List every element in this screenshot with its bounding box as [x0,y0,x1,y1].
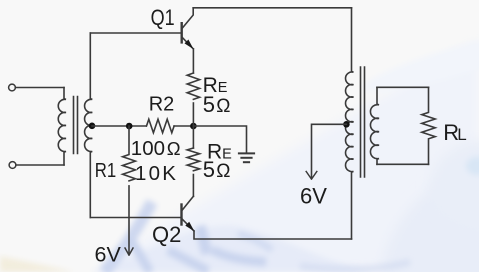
arrow 6V left [125,248,133,255]
transformer T1 core [74,97,78,154]
wire secondary to RL bottom [377,163,429,165]
wire RE2 to Q2 collector [192,175,194,197]
svg-text:6V: 6V [300,184,327,209]
svg-text:Q2: Q2 [152,222,181,247]
wire center tap to node A [92,125,146,127]
transformer T1 primary winding [58,88,66,166]
svg-text:Ω: Ω [167,138,181,159]
node B junction dot [190,123,197,130]
transformer T2 primary winding [346,8,354,239]
node T2 center tap [343,121,350,128]
svg-text:10K: 10K [135,162,178,185]
transistor Q1 [182,8,194,49]
wire secondary top to Q1 base [90,32,181,34]
transformer T2 core [361,67,365,177]
wire node B to RE2 [192,126,194,148]
resistor RL [422,87,435,164]
resistor RE2 [187,148,199,171]
svg-text:5Ω: 5Ω [203,157,231,182]
wire input top [15,87,64,89]
wire R1 to 6V arrow [128,186,130,254]
svg-text:5Ω: 5Ω [203,92,231,117]
wire center tap to 6V arrow right [312,124,347,178]
wire Q1 emitter to RE1 [192,49,194,73]
transistor Q2 [182,196,195,231]
svg-text:Q1: Q1 [151,6,175,30]
resistor R2 [147,119,175,133]
input terminal top [9,84,16,91]
arrow 6V right [306,172,317,180]
svg-text:100: 100 [131,137,165,160]
svg-text:R2: R2 [149,94,175,116]
wire Q2 emitter to bottom rail [194,231,352,239]
ground [239,153,254,162]
node T1 center tap [89,123,96,130]
wire top rail [193,7,351,9]
input terminal bottom [9,162,16,169]
transformer T1 secondary winding [85,33,93,218]
resistor RE1 [187,73,199,99]
wire secondary bottom to Q2 base [90,217,181,219]
wire node B to ground [193,126,246,153]
transformer T2 secondary winding [370,87,379,164]
node A junction dot [126,123,133,130]
wire input bottom [16,164,64,166]
svg-text:6V: 6V [95,243,122,267]
resistor R1 [123,126,136,181]
svg-text:R1: R1 [95,158,116,181]
wire secondary to RL top [377,86,429,88]
wire RE1 to node B [192,103,194,126]
wire R2 to node B [174,125,193,127]
